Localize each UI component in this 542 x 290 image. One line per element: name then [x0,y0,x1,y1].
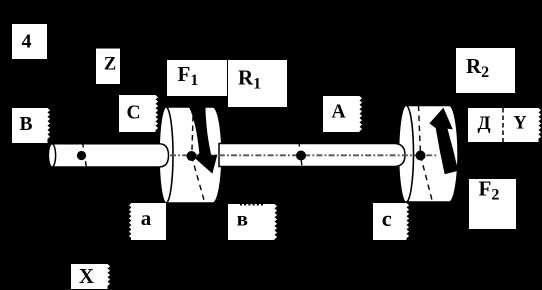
dashed radius line lower (disc 2) [421,156,433,203]
label box A [323,96,362,132]
shaft segment left (B to disc 1) [52,144,169,167]
dashed divider between Д and Y [502,108,504,142]
svg-text:с: с [382,206,392,231]
svg-text:а: а [141,206,152,230]
node dot at disc 2 center [416,151,426,161]
label box v (в) [228,204,277,240]
dashed tick through middle shaft dot [299,142,303,170]
label box Y [503,108,541,142]
node dot on left shaft [77,151,86,160]
svg-text:C: C [126,103,140,124]
label box c [373,203,409,240]
svg-text:В: В [19,114,32,135]
svg-text:X: X [79,264,94,288]
label box F1 [167,60,227,96]
svg-text:Z: Z [104,55,116,75]
node dot at disc 1 center [187,151,197,161]
dashed tick through left shaft dot [83,143,87,168]
svg-text:Д: Д [477,113,490,134]
disc/pulley 1 (left) [159,107,222,203]
svg-text:в: в [237,207,248,231]
dashed radius line lower (disc 1) [192,156,206,204]
shaft segment middle (disc 1 to disc 2) [219,144,405,167]
label box X [71,264,110,289]
force arrow F1 on disc 1 (pointing down-right) [189,104,217,173]
label box D (Д) [468,108,503,142]
svg-text:4: 4 [22,31,32,53]
node dot on middle shaft [296,151,306,161]
disc/pulley 2 (right) [399,105,459,202]
label box B [12,108,50,143]
label box 4 [12,24,47,59]
svg-text:Y: Y [513,114,527,134]
svg-text:A: A [331,102,345,123]
force arrow F2 on disc 2 (pointing up-right) [429,108,458,175]
centerline (dash-dot axis) [170,154,438,156]
dashed radius line upper (disc 2) [419,106,421,156]
label box R1 [228,60,287,107]
dashed radius line upper (disc 1) [192,107,194,157]
shaft left end cap ellipse [48,144,55,167]
dotted mark on top edge of box v [240,204,263,206]
label box Z [96,49,120,85]
label box a [129,203,166,240]
label box F2 [469,177,516,230]
label box R2 [456,48,515,93]
label box C [119,95,158,132]
